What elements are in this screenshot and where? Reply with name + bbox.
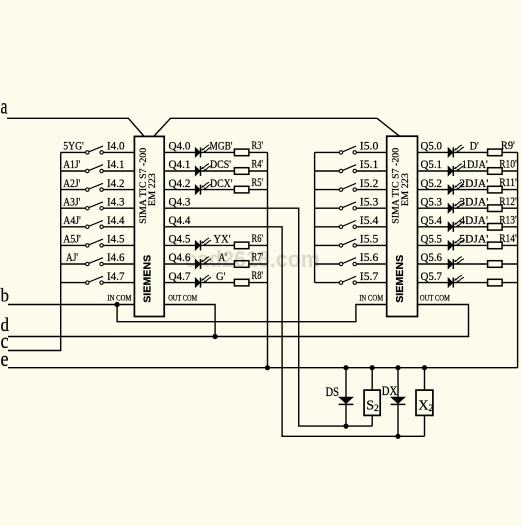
wire Q5.4 output: [418, 226, 518, 228]
switch row I4.6: [61, 258, 135, 266]
svg-text:A5J': A5J': [63, 232, 81, 246]
LED on Q5.7: [448, 275, 464, 287]
LED A' on Q4.6: [195, 257, 211, 269]
wire Q4.4 to X-net: [164, 227, 424, 436]
svg-text:DS: DS: [326, 385, 340, 399]
svg-text:OUT COM: OUT COM: [168, 294, 197, 303]
svg-text:Q5.4: Q5.4: [421, 213, 443, 227]
junction OUT COM left / d: [213, 334, 218, 339]
junction e/DS: [343, 365, 348, 370]
LED on Q5.6: [448, 257, 464, 269]
svg-text:Q5.0: Q5.0: [421, 139, 443, 153]
svg-text:EM 223: EM 223: [148, 173, 158, 206]
svg-text:R12': R12': [499, 194, 517, 208]
switch row I4.1: [61, 165, 135, 173]
svg-text:R13': R13': [499, 212, 517, 226]
LED DCS' on Q4.1: [195, 164, 211, 176]
wire Q4.5 output: [164, 244, 267, 246]
svg-text:I5.2: I5.2: [360, 176, 379, 190]
resistor R7': [234, 261, 249, 268]
wire net b: [8, 304, 134, 306]
svg-text:R3': R3': [252, 138, 264, 152]
svg-text:EM 223: EM 223: [401, 173, 411, 206]
wire output bus right: [517, 152, 519, 367]
switch row I4.2: [61, 183, 135, 191]
switch row I4.4: [61, 221, 135, 229]
wire Q4.3 to S-net: [164, 208, 372, 426]
svg-text:IN COM: IN COM: [359, 294, 383, 303]
wire DX branch: [397, 368, 399, 437]
svg-text:R6': R6': [252, 231, 264, 245]
resistor R14': [488, 242, 503, 249]
switch row I4.3: [61, 202, 135, 210]
svg-text:I4.5: I4.5: [107, 232, 125, 246]
svg-text:4DJA': 4DJA': [460, 213, 489, 227]
svg-text:Q4.2: Q4.2: [169, 176, 191, 190]
switch row I5.4: [315, 221, 387, 229]
switch row I4.5: [61, 239, 135, 247]
svg-text:I5.6: I5.6: [360, 250, 379, 264]
wire OUT COM left to d: [164, 305, 215, 337]
LED on Q5.1: [448, 164, 464, 176]
LED on Q5.4: [448, 219, 464, 231]
svg-text:Q5.5: Q5.5: [421, 232, 443, 246]
svg-text:Q4.3: Q4.3: [169, 194, 191, 208]
svg-text:R5': R5': [252, 175, 264, 189]
wire Q5.7 output: [418, 282, 518, 284]
resistor R11': [488, 186, 503, 193]
svg-text:R11': R11': [499, 175, 517, 189]
relay coil X2: [416, 390, 433, 415]
svg-text:DCX': DCX': [210, 176, 233, 190]
svg-text:5DJA': 5DJA': [459, 232, 488, 246]
svg-text:I4.2: I4.2: [107, 176, 125, 190]
resistor R4': [234, 168, 249, 175]
wire output bus left: [267, 152, 269, 367]
svg-text:Q5.1: Q5.1: [421, 157, 443, 171]
svg-text:1DJA': 1DJA': [462, 157, 488, 171]
svg-text:e: e: [1, 346, 9, 371]
junction e/DX: [395, 365, 400, 370]
wire Q5.2 output: [418, 189, 518, 191]
svg-text:I4.1: I4.1: [107, 157, 125, 171]
svg-text:R9': R9': [501, 138, 515, 152]
svg-text:I4.0: I4.0: [107, 139, 125, 153]
svg-text:Q5.6: Q5.6: [421, 250, 443, 264]
wire Q5.1 output: [418, 170, 518, 172]
resistor R3': [234, 149, 249, 156]
wire net a: [7, 118, 400, 136]
svg-text:Q4.0: Q4.0: [169, 139, 191, 153]
svg-text:I4.3: I4.3: [107, 194, 125, 208]
wire DS branch: [345, 368, 347, 426]
resistor R5': [234, 186, 249, 193]
svg-text:R4': R4': [252, 157, 264, 171]
svg-text:Q4.7: Q4.7: [169, 269, 191, 283]
svg-text:Q5.3: Q5.3: [421, 194, 443, 208]
switch row I4.0: [61, 146, 135, 154]
svg-text:I5.3: I5.3: [360, 194, 379, 208]
PLC module EM223 right: [387, 136, 418, 316]
LED G' on Q4.7: [195, 275, 211, 287]
svg-text:A4J': A4J': [63, 213, 81, 227]
junction e/X2: [422, 365, 427, 370]
wire Q5.5 output: [418, 244, 518, 246]
svg-text:a: a: [1, 94, 8, 119]
diode DX: [391, 397, 406, 404]
switch row I4.7: [61, 276, 135, 284]
LED MGB' on Q4.0: [195, 145, 211, 157]
wire Q5.6 output: [418, 263, 518, 265]
svg-text:OUT COM: OUT COM: [420, 294, 450, 303]
wire Q4.0 output: [164, 151, 267, 153]
switch row I5.3: [315, 202, 387, 210]
switch row I5.5: [315, 239, 387, 247]
wire Q5.3 output: [418, 207, 518, 209]
svg-text:G': G': [216, 269, 226, 283]
resistor R15': [488, 261, 503, 268]
LED on Q5.3: [448, 201, 464, 213]
svg-text:DX: DX: [382, 384, 398, 398]
LED on Q5.0: [448, 145, 464, 157]
junction DS/S-net: [343, 424, 348, 429]
resistor R10': [488, 168, 503, 175]
svg-text:D': D': [470, 139, 479, 153]
wire net c / input bus left: [8, 152, 61, 350]
junction b / IN COM: [115, 302, 120, 307]
switch row I5.1: [315, 165, 387, 173]
svg-text:I5.1: I5.1: [360, 157, 379, 171]
svg-text:Q4.4: Q4.4: [169, 213, 191, 227]
wire net d: [8, 305, 469, 337]
svg-text:SIEMENS: SIEMENS: [394, 255, 406, 303]
wire input bus right: [314, 152, 316, 282]
resistor R6': [234, 242, 249, 249]
svg-text:A2J': A2J': [63, 176, 80, 190]
wire Q4.1 output: [164, 170, 267, 172]
svg-text:DCS': DCS': [210, 157, 231, 171]
svg-text:IN COM: IN COM: [107, 294, 131, 303]
switch row I5.7: [315, 276, 387, 284]
LED on Q5.5: [448, 238, 464, 250]
resistor R9': [488, 149, 503, 156]
wire Q4.2 output: [164, 189, 267, 191]
svg-text:YX': YX': [214, 232, 231, 246]
wire net e: [8, 367, 518, 369]
resistor R8': [234, 279, 249, 286]
svg-text:A': A': [219, 250, 228, 264]
junction e/S2: [370, 365, 375, 370]
wire Q4.7 output: [164, 282, 267, 284]
svg-text:b: b: [1, 287, 10, 307]
LED YX' on Q4.5: [195, 238, 211, 250]
svg-text:d: d: [1, 316, 10, 336]
junction left output bus / e: [265, 365, 270, 370]
svg-text:SIEMENS: SIEMENS: [142, 255, 154, 303]
svg-text:2DJA': 2DJA': [459, 176, 488, 190]
svg-text:R14': R14': [499, 231, 517, 245]
svg-text:I4.6: I4.6: [107, 250, 125, 264]
switch row I5.0: [315, 146, 387, 154]
svg-text:Q5.7: Q5.7: [421, 269, 443, 283]
junction DX/X-net: [395, 434, 400, 439]
svg-text:5YG': 5YG': [63, 139, 84, 153]
switch row I5.6: [315, 258, 387, 266]
resistor R16': [488, 279, 503, 286]
svg-text:I5.4: I5.4: [360, 213, 379, 227]
svg-text:MGB': MGB': [210, 139, 233, 153]
wire Q4.6 output: [164, 263, 267, 265]
svg-text:I5.0: I5.0: [360, 139, 379, 153]
svg-text:Q4.1: Q4.1: [169, 157, 191, 171]
svg-text:I5.7: I5.7: [360, 269, 379, 283]
svg-text:R10': R10': [499, 157, 517, 171]
wire b branch to right IN COM: [117, 305, 387, 322]
svg-text:Q4.6: Q4.6: [169, 250, 191, 264]
LED on Q5.2: [448, 182, 464, 194]
svg-text:A1J': A1J': [63, 157, 80, 171]
svg-text:A3J': A3J': [63, 194, 80, 208]
relay coil S2: [364, 390, 380, 415]
svg-text:I5.5: I5.5: [360, 232, 379, 246]
svg-text:Q4.5: Q4.5: [169, 232, 191, 246]
wire S2 branch: [371, 368, 373, 426]
svg-text:3DJA': 3DJA': [459, 194, 488, 208]
resistor R12': [488, 205, 503, 212]
svg-text:I4.4: I4.4: [107, 213, 125, 227]
svg-text:AJ': AJ': [66, 250, 78, 264]
wire Q5.0 output: [418, 151, 518, 153]
wire X2 branch: [424, 368, 426, 437]
svg-text:R7': R7': [252, 250, 264, 264]
diode DS: [339, 397, 354, 404]
svg-text:I4.7: I4.7: [107, 269, 125, 283]
PLC module EM223 left: [134, 136, 164, 316]
LED DCX' on Q4.2: [195, 182, 211, 194]
switch row I5.2: [315, 183, 387, 191]
resistor R13': [488, 224, 503, 231]
svg-text:R8': R8': [252, 268, 264, 282]
svg-text:Q5.2: Q5.2: [421, 176, 443, 190]
